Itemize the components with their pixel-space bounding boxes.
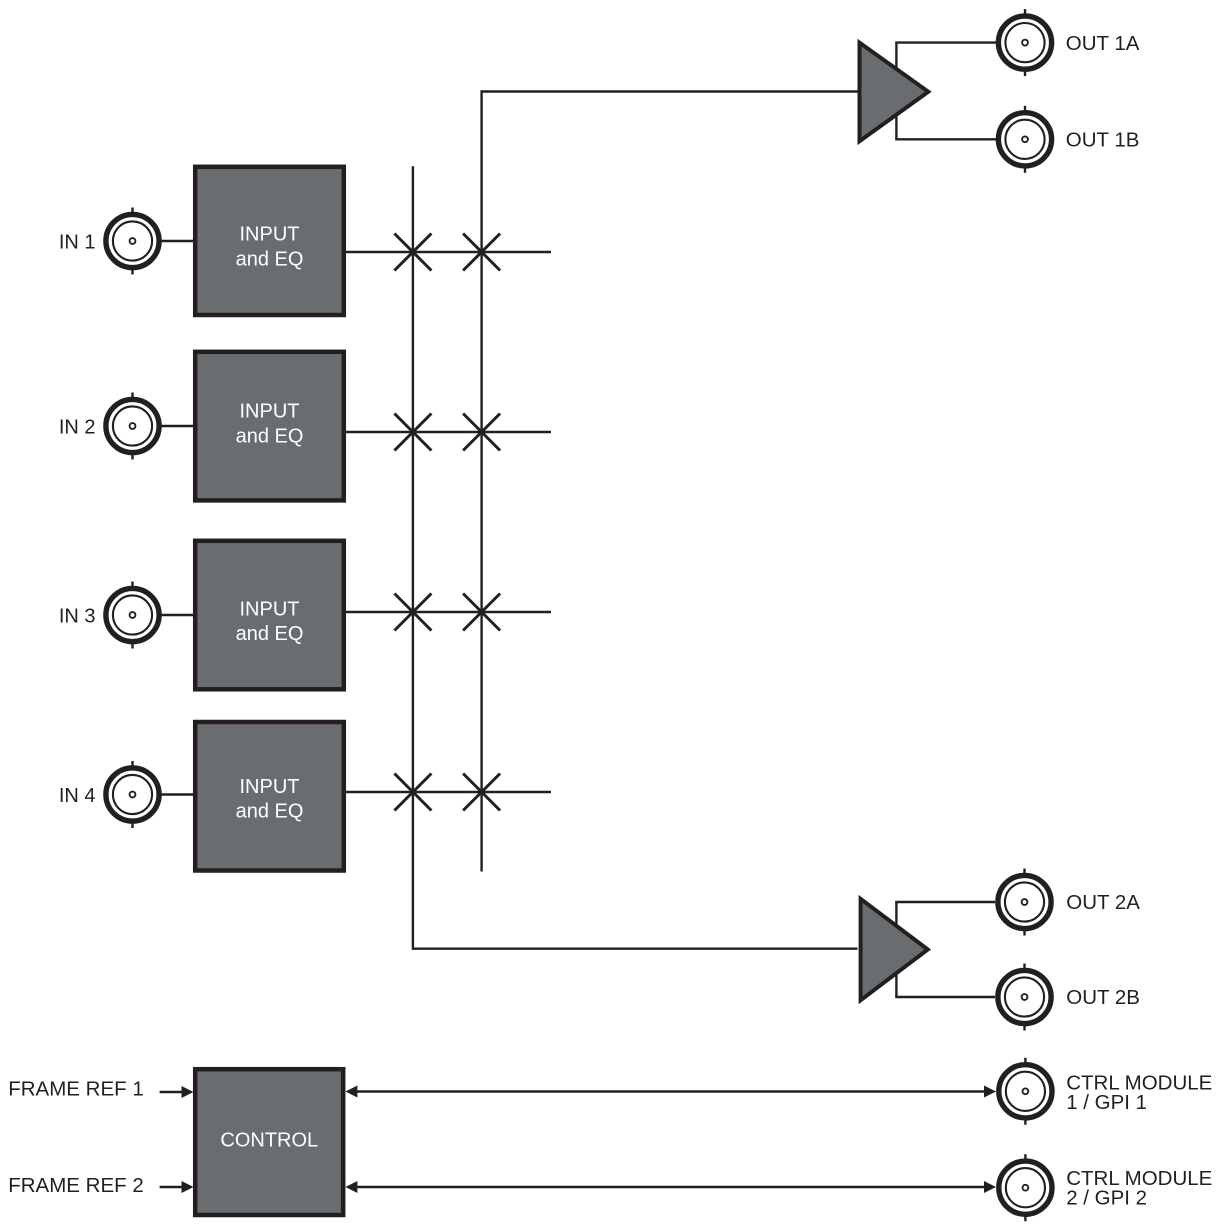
wire FRAME REF 1 arrow into CONTROL	[160, 1086, 194, 1098]
wire IN 1 BNC to INPUT block	[159, 240, 194, 242]
wire INPUT block 2 output across buses	[346, 431, 551, 433]
INPUT and EQ block 4	[195, 722, 344, 871]
BNC connector OUT 2B	[998, 964, 1051, 1031]
svg-text:and EQ: and EQ	[236, 623, 304, 645]
svg-text:IN 4: IN 4	[59, 785, 96, 807]
svg-text:CONTROL: CONTROL	[220, 1129, 318, 1151]
INPUT and EQ block 3	[195, 541, 344, 690]
wire IN 3 BNC to INPUT block	[159, 614, 194, 616]
svg-text:OUT 2B: OUT 2B	[1066, 986, 1140, 1009]
svg-text:and EQ: and EQ	[236, 249, 304, 271]
BNC connector IN 1	[106, 208, 159, 275]
crosspoint X input 1 to bus A	[394, 234, 431, 271]
svg-text:and EQ: and EQ	[236, 800, 304, 822]
BNC connector IN 4	[106, 761, 159, 828]
svg-text:OUT 1A: OUT 1A	[1066, 32, 1140, 55]
wire IN 2 BNC to INPUT block	[159, 425, 194, 427]
wire INPUT block 3 output across buses	[346, 611, 551, 613]
amplifier DA2 (triangle)	[861, 899, 928, 1000]
svg-text:FRAME REF 1: FRAME REF 1	[8, 1077, 144, 1100]
wire to OUT 2A	[895, 901, 995, 903]
wire to OUT 2B	[895, 996, 995, 998]
svg-text:2 / GPI 2: 2 / GPI 2	[1066, 1186, 1147, 1209]
svg-text:and EQ: and EQ	[236, 426, 304, 448]
wire output rail DA2	[895, 902, 897, 997]
crosspoint X input 1 to bus B	[463, 234, 500, 271]
INPUT and EQ block 2	[195, 352, 344, 501]
BNC connector OUT 2A	[998, 869, 1051, 936]
wire to OUT 1B	[895, 138, 996, 140]
wire CONTROL to CTRL MODULE 2 (double arrow)	[345, 1181, 996, 1193]
svg-text:INPUT: INPUT	[240, 223, 300, 245]
svg-text:IN 3: IN 3	[59, 606, 96, 628]
crosspoint X input 2 to bus B	[463, 414, 500, 451]
wire CONTROL to CTRL MODULE 1 (double arrow)	[345, 1086, 996, 1098]
BNC connector OUT 1A	[998, 9, 1051, 76]
crosspoint X input 3 to bus A	[394, 594, 431, 631]
crosspoint X input 3 to bus B	[463, 594, 500, 631]
amplifier DA1 (triangle)	[860, 43, 929, 142]
BNC connector IN 2	[106, 393, 159, 460]
wire bus A vertical (crosspoint column 1 to lower amplifier)	[413, 166, 858, 949]
svg-text:IN 2: IN 2	[59, 417, 96, 439]
crosspoint X input 4 to bus A	[394, 774, 431, 811]
wire IN 4 BNC to INPUT block	[159, 793, 194, 795]
wire to OUT 1A	[895, 41, 996, 43]
label CTRL MODULE 2 / GPI 2	[1066, 1167, 1212, 1210]
svg-text:IN 1: IN 1	[59, 232, 96, 254]
wire INPUT block 1 output across buses	[346, 251, 551, 253]
wire bus B vertical (crosspoint column 2 to upper amplifier)	[482, 92, 858, 872]
crosspoint X input 2 to bus A	[394, 414, 431, 451]
svg-text:OUT 1B: OUT 1B	[1066, 129, 1140, 152]
label CTRL MODULE 1 / GPI 1	[1066, 1072, 1212, 1114]
CONTROL block	[195, 1069, 343, 1215]
wire INPUT block 4 output across buses	[346, 791, 551, 793]
svg-text:INPUT: INPUT	[240, 598, 300, 620]
BNC connector IN 3	[106, 582, 159, 649]
BNC connector CTRL MODULE 2 / GPI 2	[999, 1154, 1052, 1221]
crosspoint X input 4 to bus B	[463, 774, 500, 811]
INPUT and EQ block 1	[195, 167, 344, 315]
svg-text:INPUT: INPUT	[240, 400, 300, 422]
svg-text:INPUT: INPUT	[240, 776, 300, 798]
svg-text:FRAME REF 2: FRAME REF 2	[8, 1174, 144, 1197]
wire FRAME REF 2 arrow into CONTROL	[160, 1181, 194, 1193]
BNC connector OUT 1B	[998, 106, 1051, 173]
BNC connector CTRL MODULE 1 / GPI 1	[999, 1058, 1052, 1125]
svg-text:OUT 2A: OUT 2A	[1066, 891, 1140, 914]
svg-text:1 / GPI 1: 1 / GPI 1	[1066, 1091, 1147, 1114]
wire output rail DA1	[895, 43, 897, 140]
